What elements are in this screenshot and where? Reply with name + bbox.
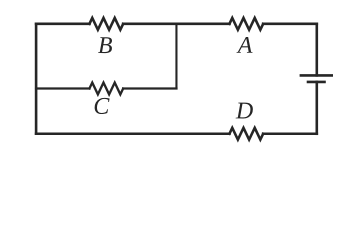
resistor C [89, 83, 123, 95]
resistor B [89, 18, 123, 30]
resistor A [229, 18, 263, 30]
wire bottom-left [36, 132, 229, 135]
wire right vertical lower [315, 82, 318, 134]
wire right vertical upper [315, 24, 318, 76]
battery short plate [308, 81, 325, 84]
label B [98, 37, 112, 53]
label A [236, 37, 252, 53]
label D [236, 103, 253, 119]
wire bottom-right [263, 132, 317, 135]
wire middle vertical from node to C branch [175, 24, 177, 89]
battery long plate [301, 74, 332, 77]
wire C-branch right [123, 87, 176, 89]
wire top-right [263, 23, 317, 26]
wire top-middle [123, 23, 229, 26]
wire C-branch left [36, 87, 89, 89]
wire left vertical [35, 24, 38, 134]
wire top-left [36, 23, 89, 26]
resistor D [229, 128, 263, 140]
label C [95, 98, 110, 114]
